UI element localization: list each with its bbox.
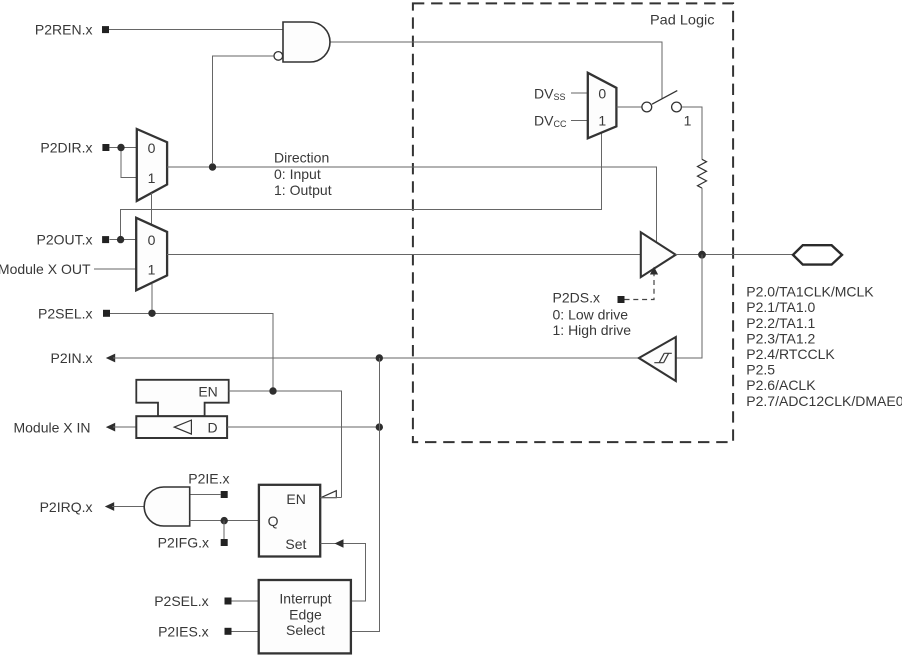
svg-text:1: 1: [598, 113, 606, 129]
svg-text:P2.7/ADC12CLK/DMAE0: P2.7/ADC12CLK/DMAE0: [746, 393, 902, 409]
wire: Direction line from mux M1 output to output driver enable: [167, 167, 656, 243]
svg-text:P2.2/TA1.1: P2.2/TA1.1: [746, 315, 815, 331]
wire: stub from Q line to P2IFG square: [223, 521, 225, 540]
wire: EN stub into interrupt flag block: [320, 497, 341, 499]
wire: P2REN.x to AND gate input: [109, 29, 283, 31]
arrowhead Module X IN: [106, 423, 115, 432]
svg-text:P2.5: P2.5: [746, 362, 775, 378]
junction on P2IN.x line: [376, 354, 383, 361]
wire: mux M2 select from bottom vertex to P2SEL line: [151, 284, 153, 313]
wire: P2DIR.x to mux M1 input 0: [110, 147, 137, 149]
wire: mux M3 output to switch: [616, 106, 641, 108]
P2DS.x terminal square: [618, 296, 625, 303]
wire: resistor to pad node: [701, 188, 703, 251]
junction on EN line: [269, 387, 276, 394]
junction on D line: [376, 423, 383, 430]
svg-text:P2IES.x: P2IES.x: [158, 623, 209, 639]
svg-text:D: D: [208, 419, 218, 435]
latch EN box (input buffer enable): [136, 380, 228, 416]
wire: DVss to mux M3 input 0: [571, 92, 588, 94]
svg-text:Q: Q: [268, 513, 279, 529]
wire: P2IE.x to AND gate input: [190, 494, 221, 496]
svg-text:P2REN.x: P2REN.x: [35, 22, 93, 38]
switch contact circle right: [672, 102, 682, 112]
arrowhead P2IRQ.x: [105, 502, 114, 511]
svg-text:P2SEL.x: P2SEL.x: [38, 305, 92, 321]
svg-text:P2.4/RTCCLK: P2.4/RTCCLK: [746, 346, 835, 362]
svg-text:0: 0: [148, 140, 156, 156]
svg-text:P2.3/TA1.2: P2.3/TA1.2: [746, 330, 815, 346]
P2IFG.x terminal square: [221, 539, 228, 546]
svg-text:1: Output: 1: Output: [274, 182, 332, 198]
wire: Set input loop from interrupt edge select: [320, 544, 365, 602]
svg-text:1: 1: [148, 170, 156, 186]
svg-text:P2.6/ACLK: P2.6/ACLK: [746, 377, 816, 393]
wire: P2SEL.x right then down to EN line: [110, 313, 273, 391]
svg-text:0: Low drive: 0: Low drive: [553, 307, 629, 323]
output driver triangle: [641, 232, 676, 277]
wire: Module X IN from D buffer box: [113, 426, 136, 428]
switch lever: [652, 91, 677, 105]
inverter bubble on AND gate lower input: [274, 52, 283, 61]
svg-text:Edge: Edge: [289, 606, 322, 622]
arrowhead P2IN.x: [106, 354, 115, 363]
svg-text:P2DS.x: P2DS.x: [553, 290, 600, 306]
svg-text:P2SEL.x: P2SEL.x: [154, 593, 208, 609]
wire: P2OUT.x up and right to pad-logic pull mux select: [121, 133, 602, 239]
P2SEL.x terminal square: [103, 310, 110, 317]
svg-text:P2.1/TA1.0: P2.1/TA1.0: [746, 299, 815, 315]
Schmitt trigger input buffer (facing left): [639, 337, 676, 381]
svg-text:Set: Set: [285, 536, 306, 552]
svg-text:P2OUT.x: P2OUT.x: [36, 232, 92, 248]
mux M1 (P2DIR direction select): [137, 129, 167, 201]
interrupt flag block (EN / Q / Set): [259, 485, 320, 557]
wire: P2IES.x to interrupt edge select: [232, 630, 259, 632]
buffer triangle inside D box: [174, 420, 191, 434]
mux M3 (pullup/pulldown voltage select): [588, 73, 617, 139]
mux M2 (P2OUT output select): [136, 218, 167, 290]
svg-text:1: High drive: 1: High drive: [553, 322, 632, 338]
wire: mux M1 select from bottom vertex: [151, 193, 153, 227]
wire: switch to pullup resistor: [681, 107, 702, 159]
svg-text:1: 1: [684, 112, 692, 128]
wire: Q output to AND gate: [190, 520, 259, 522]
wire: P2DIR.x branch to mux M1 input 1: [121, 148, 137, 178]
D buffer box: [136, 416, 227, 438]
Interrupt Edge Select block: [259, 580, 351, 653]
svg-text:P2IN.x: P2IN.x: [50, 350, 92, 366]
AND gate U2 (interrupt request, facing left): [144, 487, 190, 526]
svg-text:Pad Logic: Pad Logic: [650, 11, 715, 27]
arrowhead P2DS into driver: [650, 267, 658, 275]
svg-text:0: Input: 0: Input: [274, 166, 321, 182]
svg-text:1: 1: [148, 262, 156, 278]
wire: inverted input of AND gate from Direction node: [213, 56, 274, 163]
pad hexagon symbol: [793, 245, 842, 264]
svg-text:Module X IN: Module X IN: [13, 419, 90, 435]
junction on P2DIR.x: [117, 144, 124, 151]
wire: AND gate output to switch lever: [330, 42, 662, 98]
svg-text:EN: EN: [286, 491, 305, 507]
wire: P2IRQ.x from AND gate output: [112, 506, 146, 508]
svg-text:Direction: Direction: [274, 150, 329, 166]
svg-text:EN: EN: [198, 384, 217, 400]
svg-text:P2IRQ.x: P2IRQ.x: [40, 499, 93, 515]
P2IES.x terminal square: [225, 628, 232, 635]
junction on P2SEL.x at mux select: [148, 310, 155, 317]
svg-text:0: 0: [598, 86, 606, 102]
svg-text:Interrupt: Interrupt: [279, 591, 331, 607]
svg-text:Module X OUT: Module X OUT: [0, 261, 91, 277]
wire: mux M2 output to output driver input: [167, 254, 641, 256]
junction on Q line: [221, 517, 228, 524]
wire: driver output to pad: [676, 254, 793, 256]
P2IE.x terminal square: [221, 491, 228, 498]
wire: pad input vertical down to interrupt edge select: [351, 358, 379, 631]
hysteresis symbol inside Schmitt trigger: [654, 353, 672, 362]
junction at pad node: [698, 251, 706, 259]
edge-trigger triangle at interrupt flag EN input: [321, 491, 337, 498]
svg-text:P2.0/TA1CLK/MCLK: P2.0/TA1CLK/MCLK: [746, 284, 874, 300]
dashed wire: P2DS.x to driver drive-strength input: [625, 274, 655, 300]
svg-text:P2IFG.x: P2IFG.x: [158, 534, 209, 550]
P2SEL.x interrupt terminal square: [225, 598, 232, 605]
wire: DVcc to mux M3 input 1: [571, 119, 588, 121]
wire: latch EN to interrupt flag EN: [229, 391, 342, 498]
AND gate U1 (pullup/pulldown enable): [283, 22, 330, 62]
Pad Logic dashed boundary box: [413, 3, 733, 442]
wire: Module X OUT to mux M2 input 1: [94, 268, 136, 270]
wire: D input line from pad input node: [227, 426, 379, 428]
wire: pad node down to Schmitt trigger input: [676, 255, 702, 358]
wire: P2OUT.x to mux M2 input 0: [110, 239, 137, 241]
svg-text:P2DIR.x: P2DIR.x: [40, 139, 92, 155]
junction on P2OUT.x: [117, 236, 124, 243]
wire: P2IN.x line from Schmitt trigger output: [113, 357, 639, 359]
arrowhead into Set input: [335, 539, 344, 548]
svg-text:P2IE.x: P2IE.x: [188, 470, 229, 486]
P2OUT.x terminal square: [102, 236, 109, 243]
P2REN.x terminal square: [102, 26, 109, 33]
switch contact circle left: [642, 102, 652, 112]
junction on Direction line: [209, 163, 216, 170]
wire: P2SEL.x to interrupt edge select: [232, 600, 259, 602]
svg-text:Select: Select: [286, 622, 325, 638]
resistor R1 (pullup/pulldown): [698, 159, 707, 188]
svg-text:0: 0: [148, 232, 156, 248]
P2DIR.x terminal square: [102, 144, 109, 151]
